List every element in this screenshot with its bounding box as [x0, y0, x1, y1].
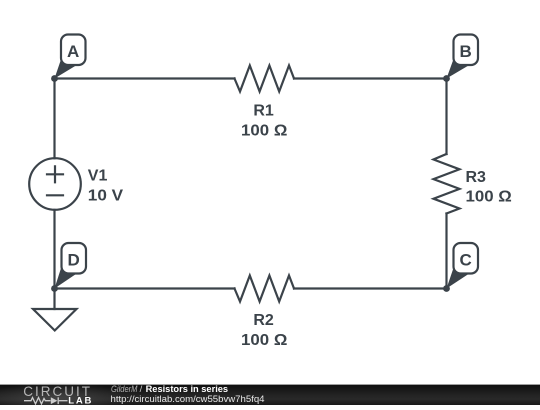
V1 plus sign	[47, 166, 63, 182]
wire V1 bottom to D	[53, 210, 55, 289]
svg-text:R1: R1	[253, 103, 274, 120]
svg-text:B: B	[460, 42, 472, 61]
node B dot	[443, 75, 450, 82]
logo wire and resistor	[24, 397, 68, 404]
svg-text:10 V: 10 V	[88, 187, 124, 204]
wire C to R2 right	[294, 287, 447, 289]
resistor R1	[235, 66, 295, 92]
node A flag tail	[55, 55, 77, 79]
svg-text:A: A	[67, 42, 79, 61]
svg-text:R2: R2	[253, 312, 274, 329]
svg-text:D: D	[68, 251, 80, 270]
wire B down to R3 top	[445, 79, 447, 155]
resistor R3	[434, 154, 460, 214]
node A dot	[51, 75, 58, 82]
wire R2 left to D	[55, 287, 235, 289]
node D dot	[51, 285, 58, 292]
svg-text:http://circuitlab.com/cw55bvw7: http://circuitlab.com/cw55bvw7h5fq4	[111, 394, 265, 405]
wire A down to V1 top	[53, 79, 55, 159]
node C label box	[454, 243, 479, 274]
svg-text:100 Ω: 100 Ω	[466, 188, 512, 205]
node B flag tail	[447, 55, 469, 79]
logo diode	[51, 397, 58, 404]
svg-text:V1: V1	[88, 168, 108, 185]
resistor R2	[235, 276, 295, 302]
logo glow	[0, 382, 127, 410]
wire D to ground	[53, 289, 55, 310]
wire R1 right to B	[294, 77, 447, 79]
svg-text:C: C	[460, 251, 472, 270]
svg-text:100 Ω: 100 Ω	[241, 123, 287, 140]
ground symbol	[33, 309, 77, 331]
node A label box	[61, 35, 86, 66]
node C flag tail	[447, 264, 469, 289]
voltage source V1 circle	[29, 158, 81, 210]
wire A to R1 left	[55, 77, 235, 79]
V1 minus sign	[47, 194, 63, 196]
node D label box	[62, 243, 87, 274]
node C dot	[443, 285, 450, 292]
svg-text:100 Ω: 100 Ω	[241, 332, 287, 349]
svg-text:LAB: LAB	[68, 396, 93, 405]
node B label box	[454, 35, 479, 66]
svg-text:R3: R3	[466, 169, 487, 186]
node D flag tail	[55, 264, 77, 289]
wire R3 bottom to C	[445, 214, 447, 289]
